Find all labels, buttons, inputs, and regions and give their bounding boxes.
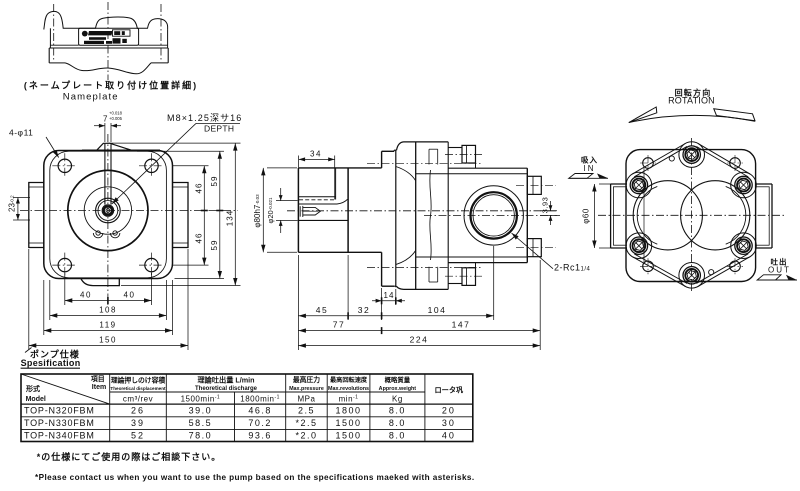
svg-text:ROTATION: ROTATION [668, 96, 715, 106]
svg-text:Item: Item [92, 384, 106, 391]
svg-text:Nameplate: Nameplate [63, 92, 119, 103]
svg-text:Max.revolutions: Max.revolutions [328, 386, 369, 392]
svg-text:+0.018: +0.018 [109, 111, 123, 116]
svg-text:59: 59 [210, 240, 219, 251]
svg-text:45: 45 [316, 305, 328, 315]
svg-text:34: 34 [310, 149, 322, 158]
svg-text:Kg: Kg [392, 394, 403, 403]
svg-text:2.5: 2.5 [298, 406, 315, 416]
svg-text:cm³/rev: cm³/rev [123, 394, 153, 403]
svg-text:+0.005: +0.005 [109, 116, 123, 121]
svg-text:ロータ巩: ロータ巩 [434, 386, 464, 395]
svg-text:*Please contact us when you wa: *Please contact us when you want to use … [35, 473, 475, 482]
svg-text:IN: IN [584, 164, 596, 173]
svg-text:1500: 1500 [336, 418, 362, 428]
svg-text:Model: Model [26, 396, 46, 403]
svg-text:φ60: φ60 [582, 208, 591, 224]
svg-text:104: 104 [428, 305, 447, 315]
svg-text:最高圧力: 最高圧力 [293, 375, 320, 384]
svg-text:134: 134 [226, 210, 235, 226]
svg-text:理論吐出量 L/min: 理論吐出量 L/min [197, 375, 254, 384]
svg-text:77: 77 [333, 320, 345, 330]
svg-text:93.6: 93.6 [248, 431, 272, 441]
svg-text:Theoretical discharge: Theoretical discharge [195, 386, 258, 392]
svg-text:理論押しのけ容積: 理論押しのけ容積 [111, 375, 166, 384]
svg-text:119: 119 [99, 321, 116, 330]
svg-text:46: 46 [195, 183, 204, 194]
svg-text:78.0: 78.0 [189, 431, 213, 441]
svg-text:Spesification: Spesification [21, 358, 81, 368]
svg-text:M8×1.25深サ16: M8×1.25深サ16 [167, 113, 242, 123]
svg-text:MPa: MPa [297, 394, 315, 403]
svg-text:39: 39 [131, 418, 145, 428]
svg-text:147: 147 [452, 320, 471, 330]
svg-text:59: 59 [210, 176, 219, 187]
svg-text:最高回転速度: 最高回転速度 [330, 376, 368, 384]
svg-text:1500min-1: 1500min-1 [181, 394, 221, 403]
svg-text:1500: 1500 [336, 431, 362, 441]
svg-text:1800min-1: 1800min-1 [240, 394, 280, 403]
svg-text:TOP-N330FBM: TOP-N330FBM [24, 418, 95, 428]
svg-text:26: 26 [131, 406, 145, 416]
svg-text:150: 150 [99, 336, 117, 345]
svg-text:30: 30 [442, 418, 456, 428]
svg-text:4-φ11: 4-φ11 [9, 128, 33, 138]
svg-text:Approx.weight: Approx.weight [379, 386, 417, 392]
svg-text:TOP-N340FBM: TOP-N340FBM [24, 431, 95, 441]
svg-text:7: 7 [103, 115, 108, 124]
svg-text:14: 14 [384, 291, 395, 300]
svg-text:40: 40 [442, 431, 456, 441]
svg-text:52: 52 [131, 431, 145, 441]
svg-text:58.5: 58.5 [189, 418, 213, 428]
svg-text:40: 40 [124, 291, 136, 300]
svg-text:TOP-N320FBM: TOP-N320FBM [24, 406, 95, 416]
svg-text:8.0: 8.0 [389, 406, 406, 416]
svg-text:40: 40 [80, 291, 92, 300]
svg-text:Theoretical displacement: Theoretical displacement [110, 386, 166, 391]
svg-text:項目: 項目 [91, 374, 105, 383]
svg-text:形式: 形式 [26, 384, 40, 393]
svg-text:OUT: OUT [768, 266, 791, 275]
svg-text:概略質量: 概略質量 [385, 375, 411, 384]
svg-text:*の仕様にてご使用の際はご相談下さい。: *の仕様にてご使用の際はご相談下さい。 [37, 451, 222, 462]
svg-text:DEPTH: DEPTH [204, 124, 234, 134]
svg-text:1800: 1800 [336, 406, 362, 416]
svg-text:46.8: 46.8 [248, 406, 272, 416]
svg-text:*2.5: *2.5 [295, 418, 317, 428]
svg-text:8.0: 8.0 [389, 418, 406, 428]
svg-text:*2.0: *2.0 [295, 431, 317, 441]
svg-text:70.2: 70.2 [248, 418, 272, 428]
svg-text:46: 46 [195, 233, 204, 244]
svg-text:(ネームプレート取り付け位置詳細): (ネームプレート取り付け位置詳細) [24, 80, 198, 91]
svg-text:39.0: 39.0 [189, 406, 213, 416]
svg-text:3.93: 3.93 [541, 197, 550, 214]
svg-text:224: 224 [410, 335, 429, 345]
svg-text:8.0: 8.0 [389, 431, 406, 441]
svg-text:32: 32 [358, 305, 370, 315]
svg-text:20: 20 [442, 406, 456, 416]
svg-text:108: 108 [99, 306, 117, 315]
svg-text:Max.pressure: Max.pressure [289, 386, 324, 392]
